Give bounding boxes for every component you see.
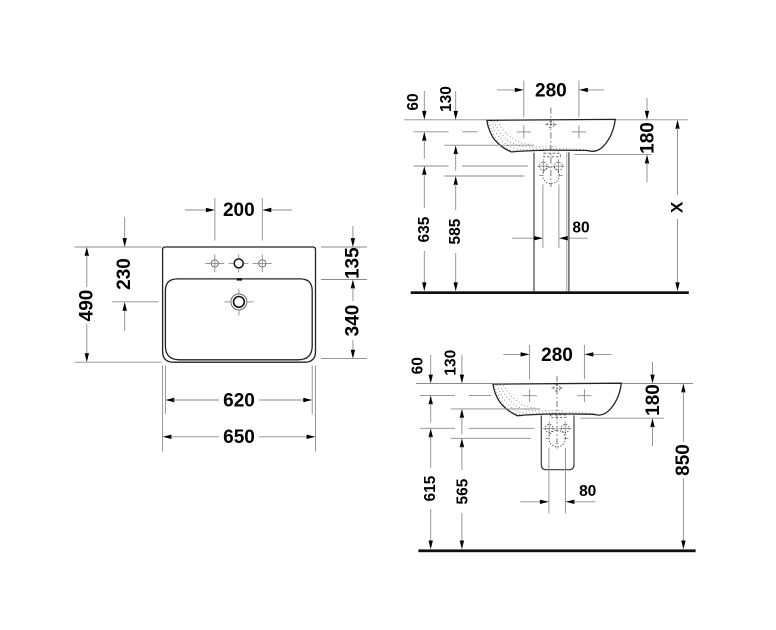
right tap cross bottom view (577, 389, 591, 402)
ground line top view (411, 291, 689, 294)
dim 230 reference line at drain level (112, 301, 159, 303)
dim 130 arrows bottom view (460, 355, 464, 435)
pedestal outline (534, 152, 569, 291)
dim X line arrows and label (675, 120, 679, 291)
plan right tap mark (253, 255, 272, 273)
drain circle dashed front (539, 167, 563, 184)
dim 230 line and arrows (123, 217, 127, 331)
center tap hole cross bottom view (552, 385, 563, 391)
plan overflow slot tick (237, 278, 242, 280)
dashed overflow box under basin (544, 153, 561, 157)
basin inner stipple band bottom view (495, 385, 598, 414)
dim 635 line arrows and label (422, 166, 426, 291)
drain pipe lines (542, 184, 544, 247)
left tap cross front (517, 126, 531, 139)
svg-text:615: 615 (422, 475, 439, 501)
dim 280 arrows top view (497, 88, 604, 92)
svg-text:650: 650 (223, 427, 255, 448)
dim 340 line and arrows (351, 280, 355, 359)
dim 620 extension lines (164, 366, 166, 415)
svg-text:130: 130 (442, 350, 459, 376)
center line (dash-dot) bottom view (556, 376, 558, 450)
svg-text:340: 340 (342, 305, 363, 337)
svg-text:60: 60 (410, 357, 427, 374)
dim 615 line arrows and label (429, 428, 433, 549)
plan center tap hole circle (229, 255, 249, 273)
svg-text:180: 180 (643, 384, 664, 416)
center tap hole cross (dashed) (545, 121, 556, 127)
dim 585 line arrows and label (454, 176, 458, 291)
drain circle dashed bottom view (546, 430, 569, 447)
svg-text:230: 230 (114, 258, 135, 290)
svg-text:180: 180 (638, 122, 659, 154)
left tap cross bottom view (522, 389, 536, 402)
svg-text:635: 635 (416, 216, 433, 242)
dim 650 extension lines (162, 366, 164, 452)
reference line at drain level bottom view (451, 437, 531, 439)
dim 200 extension lines (214, 198, 216, 241)
reference line 130 below rim bottom view (451, 408, 540, 410)
svg-text:130: 130 (438, 86, 455, 112)
dim 280 arrows bottom view (503, 352, 611, 356)
reference line at fixing holes level bottom view (420, 427, 455, 429)
svg-text:490: 490 (76, 290, 97, 322)
dim 180 top view (645, 98, 649, 183)
drain pipe lines bottom view (548, 448, 550, 514)
dim 130 arrows (454, 91, 458, 171)
plan outer rim outline (163, 247, 316, 362)
basin body front view (487, 119, 615, 151)
svg-text:80: 80 (579, 483, 596, 500)
fixing holes bottom view (543, 422, 571, 436)
dim 490 line and arrows (85, 247, 89, 362)
plan top edge extension line (75, 246, 162, 248)
reference line 60 below rim bottom view (420, 394, 455, 396)
dim 80 top view (512, 236, 588, 240)
dim 135/340 extension lines right (321, 246, 367, 248)
right tap cross front (572, 126, 586, 139)
dim 60 arrows bottom view (429, 355, 433, 423)
dim 135 arrows (351, 226, 355, 247)
dim 180 bottom reference line bottom view (581, 417, 665, 419)
reference line 60 below rim (414, 131, 449, 133)
plan inner basin outline (165, 279, 312, 360)
svg-text:80: 80 (572, 220, 589, 237)
basin body bottom view (493, 383, 621, 415)
dim 280 extension lines bottom view (529, 345, 531, 379)
svg-text:280: 280 (535, 80, 567, 101)
dim 850 line arrows and label (681, 384, 685, 550)
wall reference line at rim level (404, 119, 487, 121)
dim 80 bottom view (520, 500, 595, 504)
dim 620 line and arrows (165, 398, 312, 402)
plan left tap mark (205, 255, 224, 273)
dim 180 bottom reference line (575, 153, 652, 155)
dim 180 bottom view (650, 362, 654, 446)
dim 200 arrows (185, 208, 292, 212)
plan drain hole (224, 289, 253, 316)
center line (dash-dot) top view (550, 108, 552, 188)
svg-text:60: 60 (405, 93, 422, 110)
dim 60 arrows (422, 91, 426, 159)
ground line bottom view (418, 549, 695, 552)
svg-text:585: 585 (447, 218, 464, 244)
svg-text:620: 620 (223, 390, 255, 411)
svg-text:135: 135 (342, 247, 363, 279)
reference line at fixing holes level (414, 165, 449, 167)
reference line 130 below rim (444, 144, 534, 146)
dim 565 line arrows and label (460, 438, 464, 549)
plan bottom edge extension line (75, 361, 162, 363)
basin inner stipple band (dotted) (489, 121, 592, 150)
siphon cover outline (541, 416, 574, 470)
svg-text:850: 850 (673, 444, 694, 476)
dim 650 line and arrows (163, 435, 316, 439)
dim 280 extension lines top view (523, 81, 525, 118)
wall reference line at rim level bottom view (416, 383, 493, 385)
dashed overflow box under basin bottom view (550, 415, 566, 418)
svg-text:565: 565 (455, 478, 472, 504)
fixing holes in pedestal (537, 159, 564, 173)
svg-text:200: 200 (223, 200, 255, 221)
svg-text:X: X (668, 201, 687, 213)
svg-text:280: 280 (541, 345, 573, 366)
reference line at drain level (444, 175, 524, 177)
